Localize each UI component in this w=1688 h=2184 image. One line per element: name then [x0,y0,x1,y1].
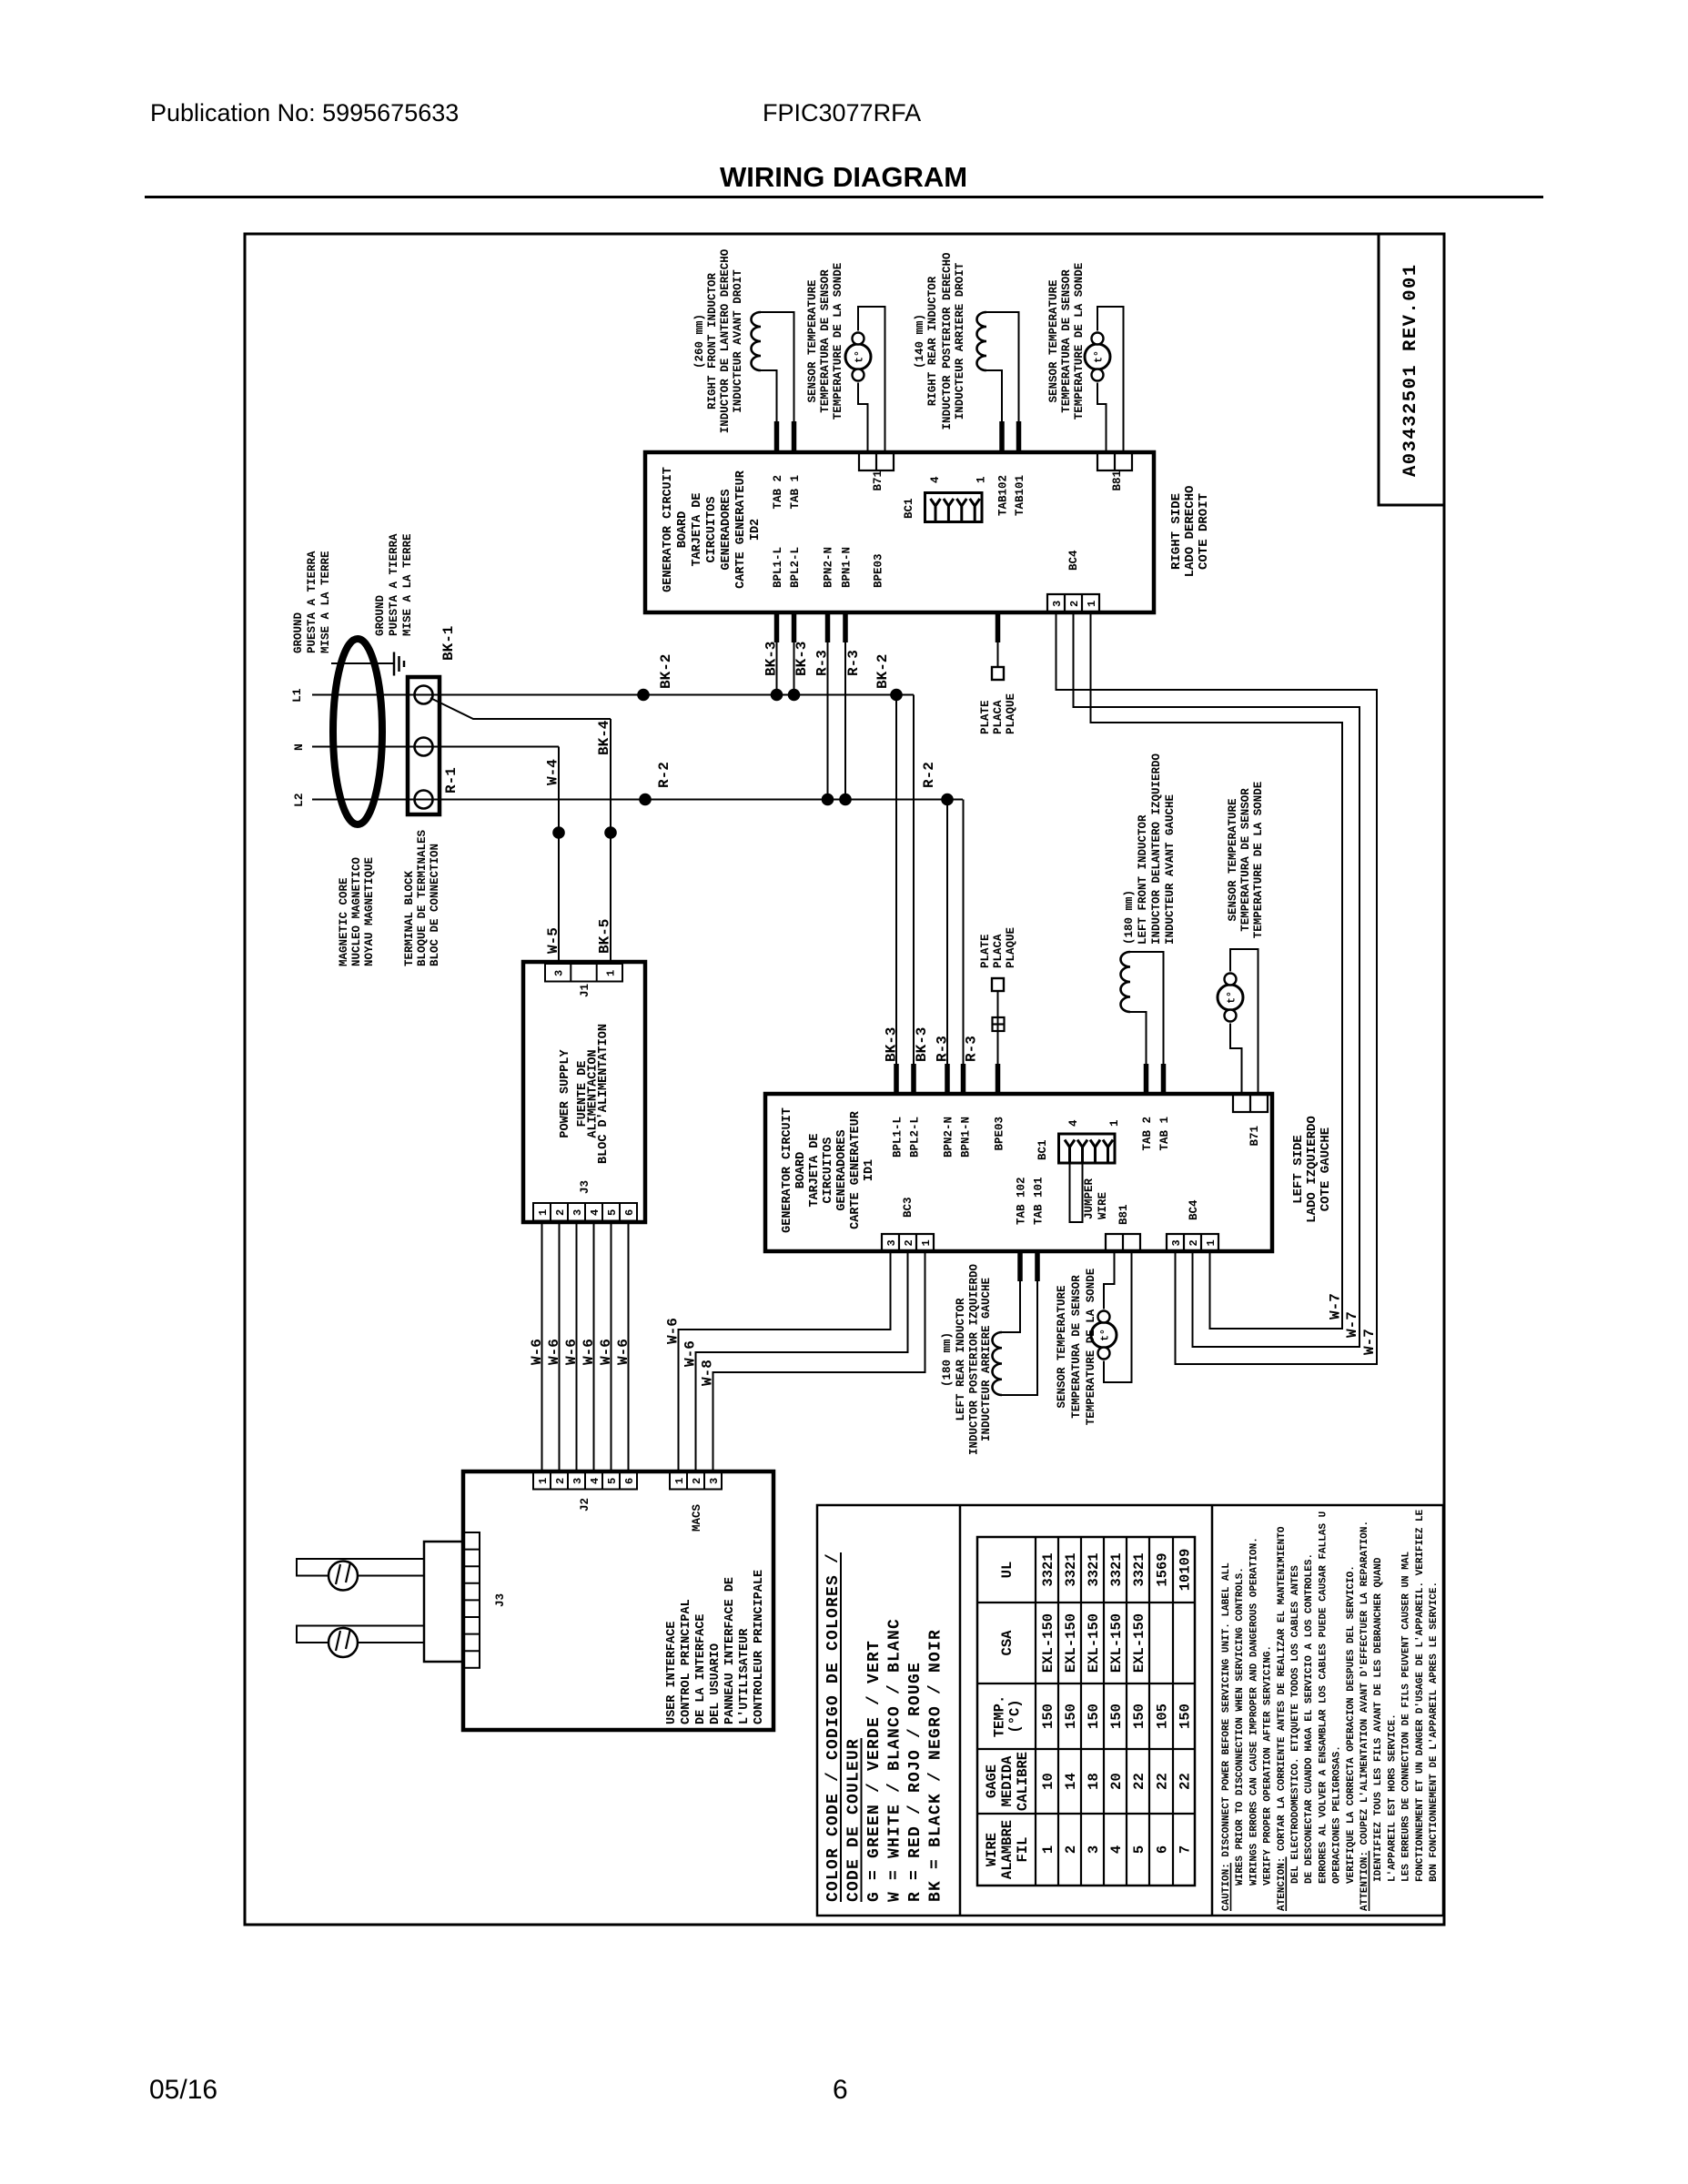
svg-text:LEFT SIDE: LEFT SIDE [1291,1135,1306,1204]
wire W-7 outer [1056,612,1378,1364]
svg-text:W-6: W-6 [598,1339,614,1365]
connector BC4 ID1 [1167,1234,1218,1251]
right front inductor coil [752,312,762,370]
svg-text:PLATE: PLATE [979,700,992,734]
svg-text:TEMPERATURE DE LA SONDE: TEMPERATURE DE LA SONDE [1073,263,1086,420]
svg-text:VERIFY PROPER OPERATION AFTER: VERIFY PROPER OPERATION AFTER SERVICING. [1263,1645,1274,1886]
svg-text:GAGE: GAGE [984,1764,1000,1798]
svg-text:TEMPERATURE DE LA SONDE: TEMPERATURE DE LA SONDE [832,263,844,420]
svg-text:B81: B81 [1111,470,1124,491]
sensor right front [845,344,871,369]
svg-text:3321: 3321 [1108,1552,1125,1586]
svg-text:BC4: BC4 [1067,550,1080,571]
svg-text:L'APPAREIL EST HORS SERVICE.: L'APPAREIL EST HORS SERVICE. [1387,1714,1398,1882]
svg-text:BPL1-L: BPL1-L [892,1117,905,1158]
svg-text:W-6: W-6 [665,1318,682,1344]
svg-text:ERRORES AL VOLVER A ENSAMBLAR: ERRORES AL VOLVER A ENSAMBLAR LOS CABLES… [1318,1512,1329,1884]
plate wire ID2 [997,642,999,667]
svg-text:BON FONCTIONNEMENT DE L'APPARE: BON FONCTIONNEMENT DE L'APPAREIL APRES L… [1429,1582,1440,1882]
svg-text:EXL-150: EXL-150 [1086,1613,1102,1673]
svg-text:3: 3 [885,1239,898,1246]
svg-text:2: 2 [554,1478,567,1484]
svg-text:BK-5: BK-5 [597,919,613,954]
svg-text:Publication No: 5995675633: Publication No: 5995675633 [150,99,459,126]
terminal block circle N [415,738,433,756]
svg-text:4: 4 [589,1209,601,1216]
svg-text:2: 2 [1068,601,1081,607]
svg-text:FONCTIONNEMENT ET UN DANGER D': FONCTIONNEMENT ET UN DANGER D'USAGE DE L… [1415,1509,1426,1882]
pin BPL2-L stub ID1 [911,1064,916,1094]
svg-text:W-7: W-7 [1344,1311,1360,1338]
wire W-7 inner [1091,612,1343,1329]
svg-text:PLACA: PLACA [992,700,1005,734]
svg-text:TAB 101: TAB 101 [1033,1177,1046,1225]
svg-text:WIRE: WIRE [1097,1192,1109,1219]
svg-text:R-2: R-2 [656,762,672,788]
pin BPL1-L stub ID1 [894,1064,899,1094]
svg-text:BLOC D'ALIMENTATION: BLOC D'ALIMENTATION [597,1024,611,1164]
svg-text:TEMP.: TEMP. [992,1695,1008,1738]
svg-text:1: 1 [1040,1845,1056,1854]
svg-text:18: 18 [1086,1773,1102,1790]
svg-text:2: 2 [1063,1845,1079,1854]
svg-text:BLOC DE CONNECTION: BLOC DE CONNECTION [429,844,441,966]
svg-text:BOARD: BOARD [794,1152,808,1189]
svg-text:t°: t° [1100,1329,1112,1341]
svg-text:CIRCUITOS: CIRCUITOS [705,497,719,563]
plug symbol 1 [329,1562,358,1591]
svg-text:TAB 2: TAB 2 [1141,1117,1154,1151]
splice dot W-4/W-5 [552,826,565,839]
svg-text:W = WHITE / BLANCO / BLANC: W = WHITE / BLANCO / BLANC [886,1618,905,1902]
svg-text:150: 150 [1040,1704,1056,1729]
notes outer box [817,1505,1443,1916]
svg-text:FIL: FIL [1015,1837,1031,1863]
svg-text:t°: t° [1094,350,1106,363]
terminal block circle L2 [415,791,433,809]
pin TAB102 stub ID1 [1017,1251,1023,1281]
svg-text:3: 3 [1086,1845,1102,1854]
svg-text:(140 mm): (140 mm) [914,314,926,369]
svg-text:TAB102: TAB102 [997,475,1010,516]
svg-text:3321: 3321 [1131,1552,1147,1586]
pin BPN2-N stub ID1 [945,1064,950,1094]
connector J3 user interface cells [463,1532,480,1668]
svg-text:1: 1 [537,1209,550,1216]
wires MACS to BC3 [679,1251,891,1471]
svg-text:20: 20 [1108,1773,1125,1790]
svg-text:t°: t° [854,350,866,363]
svg-text:BPL1-L: BPL1-L [772,547,784,588]
svg-text:3321: 3321 [1040,1552,1056,1586]
svg-text:3321: 3321 [1086,1552,1102,1586]
svg-text:L'UTILISATEUR: L'UTILISATEUR [738,1628,752,1724]
wire BK-3 to ID1 BPL2-L [913,695,915,1065]
pin TAB101 stub ID1 [1035,1251,1040,1281]
svg-text:J1: J1 [579,984,591,997]
svg-text:DE LA INTERFACE: DE LA INTERFACE [694,1613,708,1724]
wire R-3 to ID1 BPN1-N [963,800,965,1065]
pin TAB 2 stub ID2 [774,421,780,452]
title rule [145,196,1543,198]
svg-text:BPN1-N: BPN1-N [841,547,854,588]
generator circuit board ID2 [645,452,1154,612]
svg-text:R-3: R-3 [845,650,862,676]
svg-text:W-6: W-6 [581,1339,597,1365]
svg-text:TAB 1: TAB 1 [789,475,802,510]
wire BK-1 diagonal from L1 terminal [430,698,611,719]
svg-text:INDUCTOR DE LANTERO DERECHO: INDUCTOR DE LANTERO DERECHO [719,248,732,433]
svg-text:GENERADORES: GENERADORES [720,489,733,570]
svg-text:1: 1 [537,1478,550,1484]
svg-text:4: 4 [929,476,942,483]
power supply box [523,962,645,1222]
svg-text:CARTE GENERATEUR: CARTE GENERATEUR [734,470,748,589]
svg-text:150: 150 [1178,1704,1194,1729]
svg-text:7: 7 [1178,1845,1194,1854]
connector BC3 ID1 [882,1234,934,1251]
svg-text:150: 150 [1086,1704,1102,1729]
svg-text:R-3: R-3 [935,1036,951,1062]
sensor right front wires [858,307,885,452]
svg-text:4: 4 [589,1478,601,1484]
svg-text:J2: J2 [579,1498,591,1512]
svg-text:R-3: R-3 [964,1036,980,1062]
svg-text:CONTROL PRINCIPAL: CONTROL PRINCIPAL [680,1599,693,1724]
svg-text:BK-3: BK-3 [914,1027,930,1062]
svg-text:LEFT REAR INDUCTOR: LEFT REAR INDUCTOR [955,1298,967,1421]
svg-text:BPN1-N: BPN1-N [960,1117,973,1158]
svg-text:J3: J3 [494,1593,507,1607]
svg-text:1: 1 [975,476,988,483]
svg-text:IDENTIFIEZ TOUS LES FILS AVANT: IDENTIFIEZ TOUS LES FILS AVANT DE LES DE… [1373,1557,1384,1882]
sensor left front wires [1230,949,1258,1094]
jumper wire [1070,1163,1083,1222]
connector B71 ID2 [859,452,894,470]
svg-text:RIGHT SIDE: RIGHT SIDE [1169,493,1184,570]
svg-text:SENSOR TEMPERATURE: SENSOR TEMPERATURE [1056,1285,1068,1408]
svg-text:POWER SUPPLY: POWER SUPPLY [559,1048,572,1137]
connector MACS [670,1471,722,1490]
svg-text:INDUCTEUR ARRIERE DROIT: INDUCTEUR ARRIERE DROIT [954,262,966,420]
svg-text:MEDIDA: MEDIDA [999,1755,1016,1807]
svg-text:6: 6 [833,2075,848,2105]
svg-text:INDUCTOR POSTERIOR IZQUIERDO: INDUCTOR POSTERIOR IZQUIERDO [968,1263,981,1455]
svg-text:GENERATOR CIRCUIT: GENERATOR CIRCUIT [662,467,675,592]
svg-text:NUCLEO MAGNETICO: NUCLEO MAGNETICO [350,856,363,966]
svg-text:10: 10 [1040,1773,1056,1790]
notes divider 1 [959,1505,962,1916]
svg-text:INDUCTEUR AVANT DROIT: INDUCTEUR AVANT DROIT [732,269,744,413]
ground symbol [393,652,396,676]
junction dots BK-2 line [637,689,650,702]
connector B81 ID2 [1097,452,1132,470]
svg-text:BPL2-L: BPL2-L [789,547,802,588]
svg-text:ID2: ID2 [749,519,763,541]
pin BPN1-N stub ID2 [843,612,848,642]
svg-text:BK-3: BK-3 [763,642,780,676]
svg-text:MISE A LA TERRE: MISE A LA TERRE [401,533,414,636]
svg-text:W-7: W-7 [1328,1293,1344,1319]
svg-text:150: 150 [1108,1704,1125,1729]
svg-text:CARTE GENERATEUR: CARTE GENERATEUR [849,1110,863,1229]
svg-text:SENSOR TEMPERATURE: SENSOR TEMPERATURE [1227,798,1239,921]
svg-text:ATENCION: CORTAR LA CORRIENTE: ATENCION: CORTAR LA CORRIENTE ANTES DE R… [1277,1526,1288,1911]
wire BPN2-N to R-2 [827,642,829,800]
svg-text:CONTROLEUR PRINCIPALE: CONTROLEUR PRINCIPALE [753,1570,766,1724]
svg-text:ALAMBRE: ALAMBRE [999,1820,1016,1879]
svg-text:1569: 1569 [1155,1552,1171,1586]
svg-text:BC1: BC1 [903,498,915,519]
svg-text:BK-2: BK-2 [658,654,674,689]
pin BPE03 plate stub ID2 [996,612,1001,642]
svg-text:BK-3: BK-3 [793,642,810,676]
svg-text:105: 105 [1155,1704,1171,1729]
wire BPN1-N to R-2 [844,642,846,800]
plate symbol ID1 [992,978,1004,991]
svg-text:CSA: CSA [999,1630,1016,1656]
pin BPL1-L stub ID2 [774,612,780,642]
wire N [312,746,559,748]
svg-text:BK-2: BK-2 [874,654,891,689]
svg-text:1: 1 [920,1239,933,1246]
svg-text:R-2: R-2 [921,762,937,788]
svg-text:6: 6 [1155,1845,1171,1854]
plug symbol 2 [329,1628,358,1657]
svg-text:INDUCTOR DELANTERO IZQUIERDO: INDUCTOR DELANTERO IZQUIERDO [1150,753,1163,945]
sensor right rear [1085,344,1110,369]
svg-text:L1: L1 [290,688,304,703]
loop wire 2 to J3 [297,1626,424,1643]
svg-text:INDUCTEUR ARRIERE GAUCHE: INDUCTEUR ARRIERE GAUCHE [980,1278,993,1441]
svg-text:5: 5 [606,1209,619,1216]
svg-text:BK = BLACK / NEGRO / NOIR: BK = BLACK / NEGRO / NOIR [927,1629,945,1902]
sensor left side B81 [1091,1322,1117,1348]
svg-text:DE DESCONECTAR CUANDO HAGA EL: DE DESCONECTAR CUANDO HAGA EL SERVICIO A… [1304,1553,1315,1884]
svg-text:PLACA: PLACA [992,934,1005,968]
svg-text:3: 3 [708,1478,721,1484]
svg-text:SENSOR TEMPERATURE: SENSOR TEMPERATURE [1047,279,1060,402]
svg-text:LADO DERECHO: LADO DERECHO [1183,486,1198,578]
svg-text:JUMPER: JUMPER [1083,1178,1096,1219]
svg-text:22: 22 [1131,1773,1147,1790]
svg-text:BPN2-N: BPN2-N [823,547,835,588]
connector B81 ID1 [1106,1234,1140,1251]
connector BC4 ID2 [1047,594,1099,612]
svg-text:EXL-150: EXL-150 [1063,1613,1079,1673]
svg-text:PANNEAU INTERFACE DE: PANNEAU INTERFACE DE [723,1577,737,1724]
svg-text:3: 3 [571,1209,584,1216]
svg-text:150: 150 [1063,1704,1079,1729]
svg-text:NOYAU MAGNETIQUE: NOYAU MAGNETIQUE [363,857,376,966]
svg-text:5: 5 [606,1478,619,1484]
svg-text:CAUTION: DISCONNECT POWER BEFO: CAUTION: DISCONNECT POWER BEFORE SERVICI… [1221,1562,1232,1911]
svg-text:MACS: MACS [691,1503,703,1532]
svg-text:PLAQUE: PLAQUE [1005,693,1017,734]
wire L1 to BK-2 run [312,694,914,696]
svg-text:BPN2-N: BPN2-N [943,1117,955,1158]
svg-text:BK-1: BK-1 [440,626,457,661]
wire BK-4 vertical [610,719,612,962]
wire gauge table [977,1537,1195,1886]
svg-text:TARJETA DE: TARJETA DE [691,492,704,566]
svg-text:TEMPERATURA DE SENSOR: TEMPERATURA DE SENSOR [1239,788,1252,932]
svg-text:G = GREEN / VERDE / VERT: G = GREEN / VERDE / VERT [865,1640,884,1902]
svg-text:BC3: BC3 [902,1197,915,1218]
pin TAB102 stub ID2 [999,421,1005,452]
wire W-7 middle [1074,612,1360,1347]
splice dot BK-4/BK-5 [604,826,617,839]
svg-text:OPERACIONES PELIGROSAS.: OPERACIONES PELIGROSAS. [1332,1745,1343,1884]
svg-text:W-6: W-6 [546,1339,562,1365]
svg-text:R-1: R-1 [443,767,460,794]
svg-text:GROUND: GROUND [374,594,387,636]
svg-text:BK-3: BK-3 [884,1027,900,1062]
wires W-6 x6 [541,1222,543,1471]
svg-text:6: 6 [623,1478,636,1484]
svg-text:B71: B71 [872,470,884,491]
svg-text:EXL-150: EXL-150 [1040,1613,1056,1673]
svg-text:COTE DROIT: COTE DROIT [1197,493,1211,570]
svg-text:(°C): (°C) [1007,1699,1024,1733]
title block box A03432501 REV.001 [1379,234,1444,505]
wire BPL2-L to BK-2 [793,642,795,695]
svg-text:INDUCTOR POSTERIOR DERECHO: INDUCTOR POSTERIOR DERECHO [941,252,954,430]
svg-text:TEMPERATURA DE SENSOR: TEMPERATURA DE SENSOR [1070,1275,1083,1419]
svg-text:N: N [292,743,306,751]
svg-text:2: 2 [691,1478,703,1484]
svg-text:BK-4: BK-4 [596,720,612,755]
svg-text:EXL-150: EXL-150 [1108,1613,1125,1673]
svg-text:L2: L2 [292,793,306,807]
svg-text:14: 14 [1063,1773,1079,1790]
svg-text:DEL USUARIO: DEL USUARIO [709,1643,723,1724]
connector J1 [545,964,622,982]
svg-text:MISE A LA TERRE: MISE A LA TERRE [319,551,332,653]
svg-text:2: 2 [554,1209,567,1216]
svg-text:A03432501 REV.001: A03432501 REV.001 [1400,263,1421,477]
wire W-4 vertical [558,747,560,963]
svg-text:4: 4 [1108,1845,1125,1854]
main frame border [245,234,1444,1925]
svg-text:3: 3 [1051,601,1064,607]
svg-text:4: 4 [1067,1119,1080,1127]
pin BPN1-N stub ID1 [961,1064,966,1094]
svg-text:TAB 102: TAB 102 [1016,1177,1028,1225]
left front inductor coil [1121,952,1131,1012]
svg-text:CIRCUITOS: CIRCUITOS [822,1137,835,1204]
svg-text:W-4: W-4 [545,759,561,785]
svg-text:GROUND: GROUND [292,612,305,653]
svg-text:TAB101: TAB101 [1014,475,1026,516]
svg-text:R-3: R-3 [814,650,831,676]
svg-text:(260 mm): (260 mm) [693,314,706,369]
svg-text:BPE03: BPE03 [873,553,885,588]
svg-text:22: 22 [1178,1773,1194,1790]
svg-text:PLATE: PLATE [979,934,992,968]
magnetic core ellipse [333,639,382,824]
svg-text:UL: UL [999,1562,1016,1579]
svg-text:VERIFIQUE LA CORRECTA OPERACIO: VERIFIQUE LA CORRECTA OPERACION DESPUES … [1346,1565,1357,1884]
notes divider 2 [1211,1505,1214,1916]
svg-text:3: 3 [553,970,566,976]
svg-text:RIGHT REAR INDUCTOR: RIGHT REAR INDUCTOR [926,276,939,406]
svg-text:WIRINGS ERRORS CAN CAUSE IMPRO: WIRINGS ERRORS CAN CAUSE IMPROPER AND DA… [1248,1537,1259,1886]
terminal block circle L1 [415,686,433,704]
wire BPL1-L to BK-2 [776,642,778,695]
svg-text:2: 2 [903,1239,915,1246]
svg-text:2: 2 [1188,1239,1200,1246]
svg-text:BPL2-L: BPL2-L [909,1117,922,1158]
pin TAB 1 stub ID1 [1161,1064,1167,1094]
svg-text:3: 3 [571,1478,584,1484]
sensor left side wires [1104,1251,1115,1309]
generator circuit board ID1 [765,1094,1272,1251]
svg-text:6: 6 [623,1209,636,1216]
svg-text:1: 1 [673,1478,686,1484]
svg-text:BC1: BC1 [1036,1139,1049,1160]
svg-text:DEL ELECTRODOMESTICO. ETIQUETE: DEL ELECTRODOMESTICO. ETIQUETE TODOS LOS… [1290,1565,1301,1884]
svg-text:EXL-150: EXL-150 [1131,1613,1147,1673]
svg-text:3: 3 [1170,1239,1183,1246]
loop wire 1 to J3 [297,1559,424,1576]
connector BC1 ID1 [1059,1134,1116,1163]
plate wire ID1 [997,991,999,1064]
connector BC1 ID2 [925,493,983,522]
svg-text:PLAQUE: PLAQUE [1005,927,1017,968]
pin TAB 1 stub ID2 [792,421,797,452]
svg-text:BOARD: BOARD [676,511,690,549]
svg-text:J3: J3 [579,1180,591,1194]
svg-text:PUESTA A TIERRA: PUESTA A TIERRA [306,551,318,653]
svg-text:PUESTA A TIERRA: PUESTA A TIERRA [388,533,400,636]
svg-text:W-7: W-7 [1361,1329,1378,1355]
svg-text:W-8: W-8 [700,1360,716,1386]
right rear inductor coil [977,312,987,370]
svg-text:1: 1 [605,970,618,976]
svg-text:LES ERREURS DE CONNECTION DE F: LES ERREURS DE CONNECTION DE FILS PEUVEN… [1401,1552,1412,1882]
pin BPL2-L stub ID2 [792,612,797,642]
junction dots R line [639,794,652,806]
svg-text:BPE03: BPE03 [994,1117,1006,1151]
svg-text:BLOQUE DE TERMINALES: BLOQUE DE TERMINALES [416,829,429,966]
left rear inductor coil [993,1332,1003,1395]
svg-text:ID1: ID1 [863,1159,876,1181]
pin TAB 2 stub ID1 [1144,1064,1149,1094]
svg-text:LADO IZQUIERDO: LADO IZQUIERDO [1305,1116,1319,1223]
connector J2 [533,1471,637,1490]
pin BPE03 stub ID1 [996,1064,1001,1094]
svg-text:TARJETA DE: TARJETA DE [808,1133,822,1207]
svg-text:TAB 1: TAB 1 [1158,1117,1171,1151]
svg-text:W-6: W-6 [615,1339,632,1365]
svg-text:W-6: W-6 [563,1339,580,1365]
svg-text:5: 5 [1131,1845,1147,1854]
svg-text:1: 1 [1108,1119,1121,1127]
svg-text:22: 22 [1155,1773,1171,1790]
sensor right rear wires [1097,307,1124,452]
svg-text:TEMPERATURE DE LA SONDE: TEMPERATURE DE LA SONDE [1252,782,1265,939]
svg-text:MAGNETIC CORE: MAGNETIC CORE [338,877,350,966]
svg-text:USER INTERFACE: USER INTERFACE [665,1622,679,1724]
svg-text:W-6: W-6 [529,1339,545,1365]
wire L2 to R-2 run [312,799,963,801]
svg-text:05/16: 05/16 [149,2075,217,2105]
svg-text:FPIC3077RFA: FPIC3077RFA [763,99,921,126]
wire R-3 to ID1 BPN2-N [946,800,948,1065]
connector J3 power supply [533,1203,637,1221]
svg-text:SENSOR TEMPERATURE: SENSOR TEMPERATURE [806,279,819,402]
